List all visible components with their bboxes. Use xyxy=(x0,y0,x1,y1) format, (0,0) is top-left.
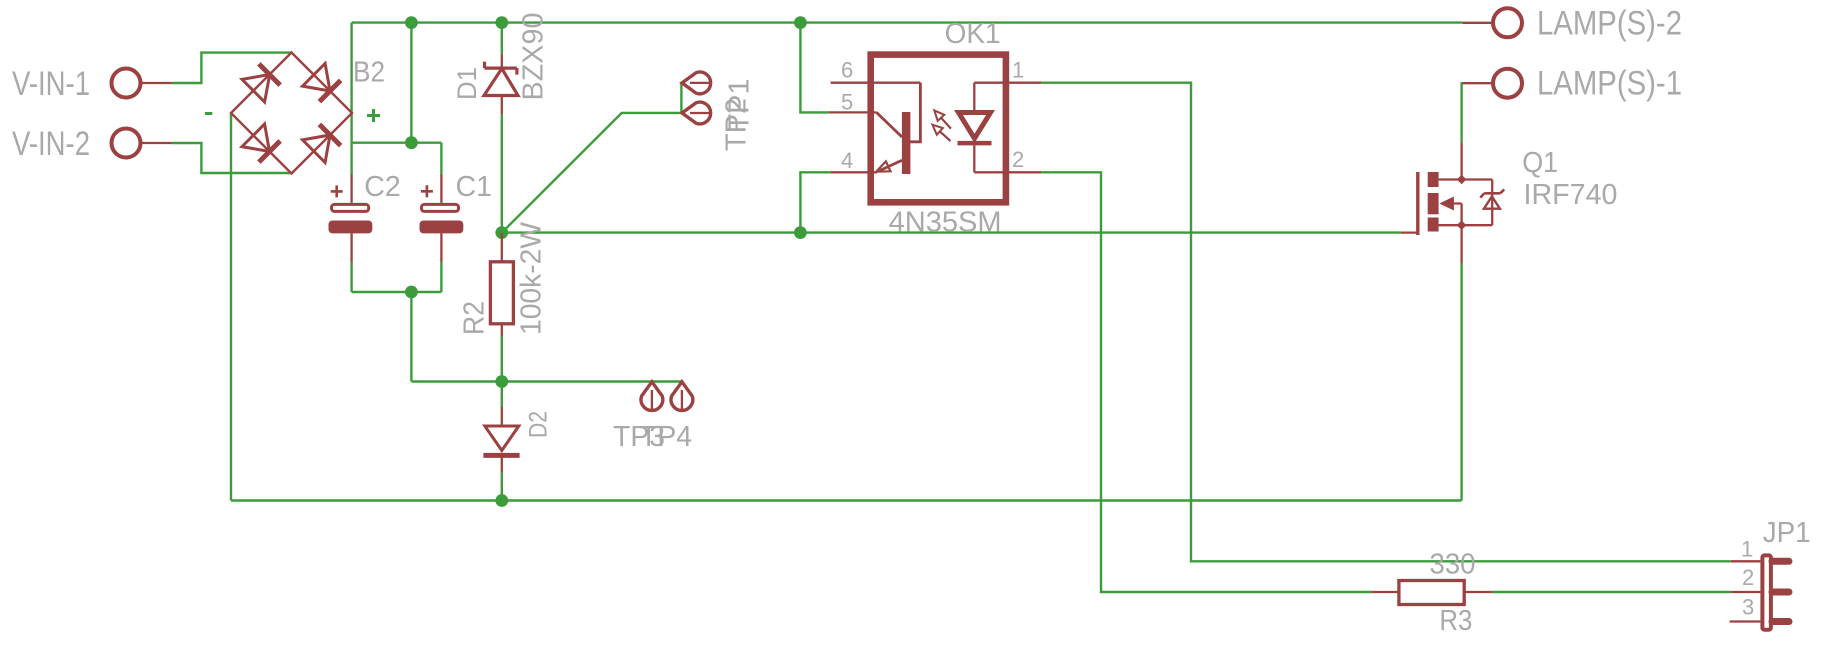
diode D2 xyxy=(483,407,519,472)
svg-text:BZX90: BZX90 xyxy=(518,13,550,101)
terminal pad V-IN-1 xyxy=(112,69,172,98)
wire V-IN-1 to bridge xyxy=(172,53,292,83)
OK1 light arrow lower xyxy=(932,125,950,141)
wire Q1 source to ground rail xyxy=(1460,264,1462,501)
junction node top rail x411 xyxy=(405,16,418,29)
test point TP1 xyxy=(682,72,712,94)
OK1 pin 6 xyxy=(831,82,921,84)
OK1 light arrow upper xyxy=(934,110,951,128)
terminal pad V-IN-2 xyxy=(112,129,172,158)
svg-text:5: 5 xyxy=(841,89,853,114)
OK1 pin 5 xyxy=(829,111,877,113)
OK1 pin 1 xyxy=(974,82,1041,84)
junction node caps top rail xyxy=(405,136,418,149)
wire D1 top lead xyxy=(501,23,503,54)
resistor R2 xyxy=(490,233,513,336)
wire TP1 riser xyxy=(680,83,682,113)
capacitor C1 xyxy=(420,174,464,262)
svg-text:R3: R3 xyxy=(1439,605,1472,637)
junction node mid rail x502 xyxy=(495,226,508,239)
wire C2 top lead xyxy=(350,143,352,174)
svg-text:2: 2 xyxy=(1742,565,1754,590)
bridge rectifier B2 xyxy=(231,53,352,174)
OK1 LED xyxy=(958,83,992,173)
bridge plus sign xyxy=(367,109,380,122)
test point TP2 xyxy=(682,102,712,124)
svg-text:JP1: JP1 xyxy=(1763,517,1811,549)
resistor R3 xyxy=(1372,581,1493,605)
terminal pad LAMP(S)-2 xyxy=(1462,8,1522,37)
wire OK1 pin5 feed xyxy=(800,23,828,113)
wire LAMP(S)-1 to Q1 drain xyxy=(1460,83,1463,142)
wire C1 bottom lead xyxy=(440,262,442,292)
wire OK1 pin2 to R3 xyxy=(1041,172,1371,592)
svg-text:1: 1 xyxy=(1012,58,1024,83)
svg-text:LAMP(S)-1: LAMP(S)-1 xyxy=(1537,65,1682,103)
wire diagonal to TP2 xyxy=(502,113,682,233)
zener diode D1 xyxy=(484,54,518,115)
svg-text:OK1: OK1 xyxy=(945,18,1001,50)
Q1 body diode xyxy=(1480,189,1504,208)
wire mid rail to Q1 gate xyxy=(502,231,1401,233)
junction node caps bottom rail xyxy=(405,286,418,299)
wire OK1 pin1 to JP1 pin1 xyxy=(1041,83,1731,562)
terminal pad LAMP(S)-1 xyxy=(1462,69,1522,98)
svg-text:3: 3 xyxy=(1742,595,1754,620)
wire bridge minus drop xyxy=(230,113,232,501)
bridge minus sign xyxy=(205,112,212,115)
OK1 pin 2 xyxy=(974,171,1041,173)
wire caps to node drop xyxy=(410,292,412,382)
wire ground rail xyxy=(231,499,1462,501)
test point TP4 xyxy=(671,382,693,412)
junction node top rail x800 xyxy=(794,16,807,29)
svg-text:Q1: Q1 xyxy=(1522,147,1558,179)
svg-text:100k-2W: 100k-2W xyxy=(516,221,548,335)
svg-text:V-IN-2: V-IN-2 xyxy=(12,125,90,163)
svg-text:LAMP(S)-2: LAMP(S)-2 xyxy=(1537,5,1682,43)
svg-text:R2: R2 xyxy=(459,301,491,335)
wire rail to TP3 TP4 xyxy=(411,380,682,382)
wire R2 bottom lead xyxy=(501,336,503,382)
wire D1 bottom to node xyxy=(501,115,503,233)
wire bridge plus riser xyxy=(350,23,352,143)
svg-text:D1: D1 xyxy=(452,67,482,100)
junction node mid rail x800 xyxy=(794,226,807,239)
OK1 pin 4 xyxy=(831,171,877,173)
svg-text:TP1: TP1 xyxy=(724,79,756,132)
wire V-IN-2 to bridge xyxy=(172,143,292,173)
wire C1 top lead xyxy=(440,143,442,174)
svg-text:4N35SM: 4N35SM xyxy=(889,207,1002,239)
wire OK1 pin4 feed xyxy=(800,172,830,232)
wire C2 bottom lead xyxy=(350,262,352,292)
svg-text:TP4: TP4 xyxy=(640,421,692,453)
wire caps bottom rail xyxy=(352,291,442,293)
connector JP1 xyxy=(1730,555,1789,629)
svg-text:D2: D2 xyxy=(525,411,553,438)
MOSFET Q1 xyxy=(1401,142,1492,263)
svg-text:6: 6 xyxy=(841,58,853,83)
svg-text:2: 2 xyxy=(1012,147,1024,172)
wire riser x411 xyxy=(410,23,412,143)
OK1 phototransistor xyxy=(876,83,920,174)
svg-text:IRF740: IRF740 xyxy=(1524,179,1618,211)
wire D2 bottom lead xyxy=(501,472,503,500)
svg-text:C2: C2 xyxy=(364,171,401,203)
wire R3 to JP1 pin2 xyxy=(1492,591,1731,593)
svg-text:4: 4 xyxy=(841,148,853,173)
optocoupler OK1 box xyxy=(871,55,1006,203)
junction node top rail x502 xyxy=(495,16,508,29)
svg-text:V-IN-1: V-IN-1 xyxy=(12,65,90,103)
svg-text:330: 330 xyxy=(1430,549,1476,581)
junction node ground rail xyxy=(495,494,508,507)
junction node R2 D2 rail xyxy=(495,375,508,388)
svg-text:1: 1 xyxy=(1741,537,1753,562)
capacitor C2 xyxy=(329,174,373,262)
test point TP3 xyxy=(641,382,663,412)
svg-text:C1: C1 xyxy=(456,171,493,203)
wire D2 top lead xyxy=(501,382,503,408)
wire top rail net LAMP(S)-2 xyxy=(352,21,1463,23)
wire caps top rail xyxy=(352,141,442,143)
svg-text:B2: B2 xyxy=(353,57,385,89)
